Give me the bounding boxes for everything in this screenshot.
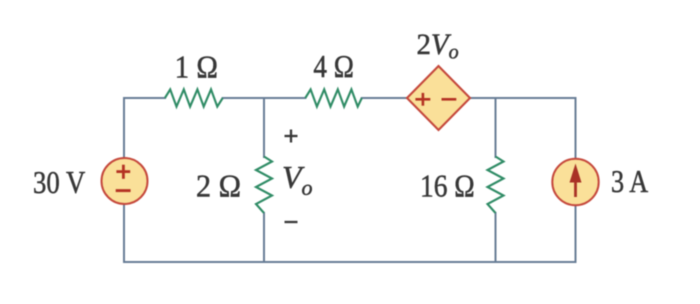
svg-text:3 A: 3 A <box>611 165 648 200</box>
wire left below source to bottom-left corner <box>124 204 264 262</box>
wire 16ohm branch upper <box>495 98 497 157</box>
wire top-left: corner to 1ohm <box>124 98 165 158</box>
U1 minus sign <box>442 98 457 101</box>
svg-text:16 Ω: 16 Ω <box>420 169 475 204</box>
resistor R4 16 ohm vertical zigzag <box>488 157 504 214</box>
svg-text:4 Ω: 4 Ω <box>313 50 354 85</box>
svg-text:1 Ω: 1 Ω <box>175 49 218 85</box>
node plus mark above Vo <box>285 130 298 143</box>
wire 16ohm branch lower <box>495 213 497 262</box>
wire 4ohm to diamond left vertex <box>362 97 408 99</box>
V1 minus sign <box>116 189 131 192</box>
dependent source U1 diamond 2Vo <box>407 66 470 130</box>
svg-text:2Vo: 2Vo <box>416 29 458 64</box>
svg-text:Vo: Vo <box>282 159 313 200</box>
resistor R1 1 ohm zigzag <box>165 89 223 106</box>
svg-text:2 Ω: 2 Ω <box>196 168 241 204</box>
resistor R3 2 ohm vertical zigzag <box>256 157 272 214</box>
wire between 1ohm and 4ohm <box>223 97 306 99</box>
node minus mark below Vo <box>285 221 298 223</box>
U1 plus sign <box>415 93 430 106</box>
voltage source V1 30V circle <box>102 158 148 204</box>
wire 2ohm branch upper <box>263 98 265 157</box>
svg-text:30 V: 30 V <box>33 166 85 201</box>
V1 plus sign <box>116 165 130 179</box>
resistor R2 4 ohm zigzag <box>305 89 362 106</box>
wire diamond right vertex to top-right corner, down to source <box>470 98 576 159</box>
current source I1 3A circle <box>552 159 598 205</box>
wire bottom middle to right corner and up to 3A source <box>264 205 576 262</box>
wire 2ohm branch lower <box>263 213 265 262</box>
I1 arrow shaft <box>574 179 577 197</box>
I1 arrow head <box>570 164 582 183</box>
